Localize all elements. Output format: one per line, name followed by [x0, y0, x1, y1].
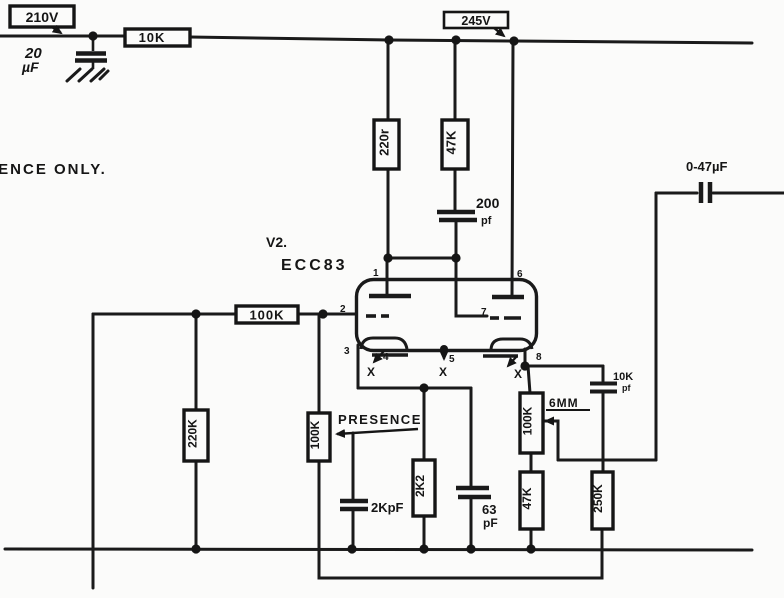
wiper arrowhead tone pot: [544, 417, 554, 426]
svg-text:0-47µF: 0-47µF: [686, 159, 728, 174]
svg-text:pf: pf: [481, 215, 492, 227]
svg-text:ECC83: ECC83: [281, 257, 348, 274]
capacitor 0.47uF: [701, 182, 710, 203]
node: tube bottom pin5: [440, 345, 448, 353]
svg-text:pF: pF: [483, 516, 498, 530]
presence wiper arrow: [337, 429, 418, 434]
svg-text:47K: 47K: [520, 487, 534, 509]
svg-text:2: 2: [340, 304, 346, 315]
wire: second bottom rail (250K bottom to presence pot bottom): [319, 461, 602, 578]
node: rail 47K: [526, 544, 535, 553]
svg-text:V2.: V2.: [266, 234, 287, 250]
resistor 220r: [374, 120, 399, 169]
node: 47K top: [451, 35, 460, 44]
wire: 47K top lead: [454, 41, 457, 120]
heater bar left: [372, 353, 408, 357]
capacitor 200pF: [437, 212, 477, 220]
capacitor 2KpF: [340, 501, 368, 509]
label 210V: [10, 6, 74, 33]
resistor 100K grid: [236, 306, 298, 323]
capacitor 10KpF: [590, 384, 617, 392]
node: grid bus presence: [318, 309, 327, 318]
node: rail 220K: [191, 544, 200, 553]
svg-text:X: X: [439, 365, 447, 379]
wire: 200pF bottom lead: [455, 222, 458, 258]
svg-text:X: X: [514, 367, 522, 381]
resistor 2K2: [413, 460, 435, 516]
wire: bottom common rail: [5, 549, 752, 550]
wire: grid bus horizontal to pin 2: [93, 313, 356, 316]
svg-text:pf: pf: [622, 383, 631, 393]
wire: 63pF bottom lead: [470, 498, 473, 549]
node: cathode wire 2K2: [419, 383, 428, 392]
tube envelope V2: [357, 280, 537, 351]
svg-text:µF: µF: [21, 59, 39, 75]
svg-text:245V: 245V: [461, 14, 491, 28]
svg-text:1: 1: [373, 268, 379, 279]
wire: 2K2 top lead: [423, 388, 426, 460]
svg-text:100K: 100K: [521, 406, 535, 435]
wire: 220r bottom to node wire: [387, 169, 390, 258]
wire: 10KpF top stub: [602, 366, 605, 382]
svg-text:8: 8: [536, 352, 542, 363]
wire: 2KpF bottom lead: [352, 510, 355, 549]
resistor 47K top: [442, 120, 468, 169]
wire: pin 3 cathode lead down: [357, 345, 360, 388]
wire: 220K top lead: [195, 314, 198, 410]
heater bar right: [483, 354, 518, 358]
wire: 47K bottom lead: [530, 529, 533, 549]
label 245V: [444, 12, 508, 36]
wire: 0.47uF to right edge: [713, 192, 784, 195]
svg-text:IENCE ONLY.: IENCE ONLY.: [0, 161, 107, 178]
node: right anode top: [509, 36, 518, 45]
node: rail 63pF: [466, 544, 475, 553]
svg-text:10K: 10K: [139, 30, 166, 45]
pin 8 arrow: [508, 356, 517, 366]
wire: top supply rail: [0, 36, 752, 43]
svg-text:6MM: 6MM: [549, 396, 579, 410]
svg-text:10K: 10K: [613, 371, 633, 383]
svg-text:2KpF: 2KpF: [371, 500, 404, 515]
svg-text:100K: 100K: [249, 308, 284, 323]
cathode right: [491, 339, 532, 349]
wire: right anode column: [512, 41, 513, 296]
node: rail 2K2: [419, 544, 428, 553]
node: pin8 junction: [520, 361, 529, 370]
svg-text:200: 200: [476, 195, 500, 211]
wire: tone pot to 47K: [530, 453, 533, 472]
wire: 100K tone pot top lead: [528, 366, 530, 393]
resistor 250K: [591, 472, 613, 529]
wire: 63pF top lead: [470, 388, 473, 487]
wire: coupling cap vertical: [655, 193, 658, 460]
wire: cathode node horizontal: [358, 387, 471, 390]
svg-text:3: 3: [344, 346, 350, 357]
svg-text:4: 4: [383, 352, 389, 363]
svg-text:63: 63: [482, 502, 496, 517]
anode plate left (pin 1): [369, 294, 411, 299]
wire: presence wiper down to 2KpF: [352, 433, 355, 500]
resistor 10K: [125, 29, 190, 46]
wire: wiper to coupling line: [558, 459, 656, 462]
wire: grid 7 lead: [456, 258, 487, 316]
wire: left vertical (grid bus down): [92, 314, 95, 588]
node: 20uF tap: [88, 31, 97, 40]
pin 4 arrow: [374, 351, 384, 362]
grid dashes right (pin 7): [490, 316, 521, 320]
grid dashes left (pin 2): [366, 314, 389, 318]
svg-text:47K: 47K: [444, 130, 459, 154]
wire: 220K bottom lead: [195, 461, 198, 549]
svg-text:220K: 220K: [186, 419, 200, 448]
pin 5 arrow: [443, 350, 445, 359]
wire: pin 8 lead down to junction: [524, 349, 527, 366]
svg-text:2K2: 2K2: [413, 475, 427, 497]
svg-text:PRESENCE: PRESENCE: [338, 412, 422, 427]
wire: pin8 junction to 10KpF cap: [525, 365, 603, 368]
capacitor C 20uF plates: [75, 36, 107, 69]
svg-text:X: X: [367, 365, 375, 379]
cathode left: [361, 338, 407, 349]
svg-text:6: 6: [517, 269, 523, 280]
node: anode wire left: [383, 253, 392, 262]
resistor 220K: [184, 410, 208, 461]
svg-text:210V: 210V: [26, 9, 59, 25]
node: grid bus 220K: [191, 309, 200, 318]
node: anode wire right: [451, 253, 460, 262]
svg-text:5: 5: [449, 354, 455, 365]
wire: node wire between anode column and grid column: [388, 257, 456, 260]
node: 220r top: [384, 35, 393, 44]
wire: presence pot top lead: [318, 314, 321, 413]
potentiometer 100K tone: [520, 393, 543, 453]
wire: 47K bottom to 200pF: [454, 169, 457, 210]
ground symbol: [67, 69, 108, 81]
wire: tone pot wiper: [543, 421, 558, 460]
wire: 10KpF bottom to 250K: [602, 392, 605, 472]
svg-text:220r: 220r: [377, 129, 392, 156]
wire: left anode lead into tube: [386, 258, 389, 294]
wire: 2K2 bottom lead: [423, 516, 426, 549]
wire: to 0.47uF cap: [656, 192, 697, 195]
node: rail 2KpF: [347, 544, 356, 553]
resistor 47K cathode: [520, 472, 543, 529]
anode plate right (pin 6): [492, 295, 524, 300]
wire: 220r anode column: [387, 40, 390, 120]
potentiometer 100K presence: [308, 413, 330, 461]
svg-text:100K: 100K: [308, 420, 322, 449]
svg-text:250K: 250K: [591, 484, 605, 513]
capacitor 63pF: [456, 488, 491, 497]
svg-text:7: 7: [481, 307, 487, 318]
